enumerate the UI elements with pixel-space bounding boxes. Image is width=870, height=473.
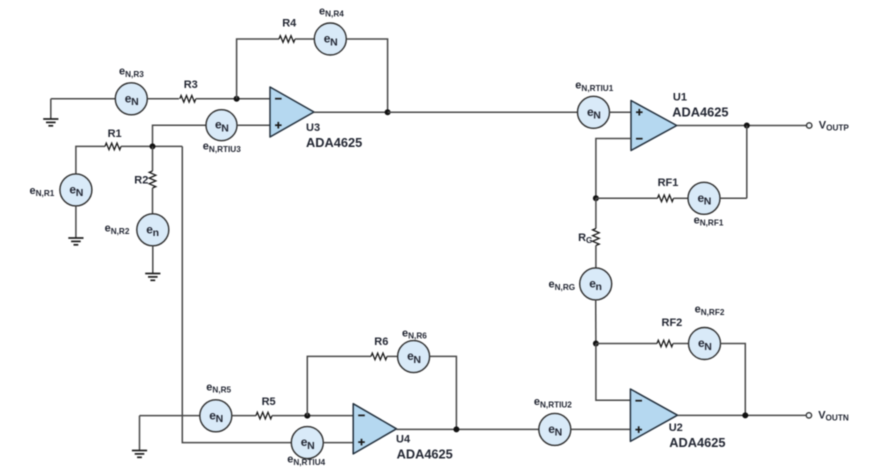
svg-text:N: N bbox=[307, 440, 315, 452]
wire ground1 stem bbox=[50, 99, 52, 119]
resistor R3 bbox=[180, 96, 196, 103]
noise source e_N,RF1 bbox=[688, 182, 720, 214]
svg-text:N: N bbox=[131, 96, 139, 108]
wire e_N,R5 to R5 bbox=[232, 415, 256, 417]
terminal V_OUTP terminal bbox=[807, 123, 812, 128]
wire U1 output to V_OUTP bbox=[677, 125, 807, 127]
svg-text:R2: R2 bbox=[134, 175, 148, 187]
wire U2 output to V_OUTN bbox=[678, 414, 806, 416]
wire e_N,R4 down to node B bbox=[346, 39, 387, 112]
svg-text:N: N bbox=[555, 427, 563, 439]
wire R4 to e_N,R4 bbox=[295, 38, 314, 40]
svg-text:U3: U3 bbox=[306, 122, 320, 134]
noise source e_N,RG bbox=[580, 268, 612, 300]
node F (U2 output node) bbox=[742, 412, 748, 418]
noise source e_N,RTIU4 bbox=[291, 427, 323, 459]
noise source e_N,R5 bbox=[200, 400, 232, 432]
noise source e_N,RF2 bbox=[689, 328, 721, 360]
wire e_N,RTIU1 to U1 plus bbox=[610, 111, 632, 113]
svg-text:ADA4625: ADA4625 bbox=[306, 135, 362, 150]
wire node C to R2 bbox=[152, 146, 154, 171]
ground GND4 bbox=[132, 451, 147, 458]
wire ground1 to e_N,R3 bbox=[51, 98, 116, 100]
svg-text:N: N bbox=[704, 341, 712, 353]
noise source e_N,R3 bbox=[115, 83, 147, 115]
wire R5 to U4 minus bbox=[272, 415, 353, 417]
ground GND3 bbox=[145, 274, 160, 281]
op-amp U3 bbox=[270, 87, 314, 137]
wire RG to e_N,RG bbox=[595, 246, 597, 268]
node E (U4 output node) bbox=[453, 426, 459, 432]
resistor RF1 bbox=[658, 195, 674, 202]
terminal V_OUTN terminal bbox=[806, 413, 811, 418]
wire node G to RF1 bbox=[746, 126, 748, 199]
wire RF1 to e_N,RF1 bbox=[674, 197, 689, 199]
svg-text:R4: R4 bbox=[282, 17, 297, 29]
noise source e_N,R6 bbox=[398, 341, 430, 373]
noise source e_N,R2 bbox=[137, 214, 169, 246]
resistor R6 bbox=[371, 353, 387, 360]
noise source e_N,R4 bbox=[314, 23, 346, 55]
node H (RF1/RG node) bbox=[593, 195, 599, 201]
svg-text:R3: R3 bbox=[184, 79, 198, 91]
wire U3 output to node B bbox=[314, 111, 388, 113]
wire R3 to node A bbox=[196, 98, 270, 100]
svg-text:U1: U1 bbox=[673, 92, 687, 104]
svg-text:N: N bbox=[593, 110, 601, 122]
wire ground4 to e_N,R5 bbox=[140, 415, 200, 417]
wire node A up to R4 rail bbox=[237, 39, 279, 99]
ground GND1 bbox=[43, 119, 58, 126]
wire e_N,RTIU4 to U4 plus bbox=[323, 442, 353, 444]
op-amp U4 bbox=[353, 404, 396, 454]
resistor R_G bbox=[593, 229, 600, 246]
wire node C up to e_N,RTIU3 bbox=[153, 125, 207, 146]
wire U4 output to e_N,RTIU2 bbox=[397, 428, 539, 430]
wire R1 to node C bbox=[121, 145, 182, 147]
wire e_N,R1 to ground2 bbox=[75, 206, 77, 238]
wire e_N,RTIU3 to U3 plus bbox=[237, 124, 270, 126]
wire e_N,R3 to R3 bbox=[147, 98, 179, 100]
svg-text:ADA4625: ADA4625 bbox=[672, 104, 728, 119]
noise source e_N,RTIU1 bbox=[578, 96, 610, 128]
svg-text:N: N bbox=[330, 36, 338, 48]
svg-text:N: N bbox=[216, 413, 224, 425]
svg-text:R5: R5 bbox=[262, 396, 276, 408]
wire e_N,R1 up to R1 bbox=[76, 146, 105, 190]
resistor RF2 bbox=[657, 340, 673, 347]
wire node I to RF2 bbox=[596, 343, 657, 345]
resistor R2 bbox=[149, 171, 156, 188]
wire RF2 to e_N,RF2 bbox=[673, 343, 689, 345]
wire node B to e_N,RTIU1 bbox=[388, 111, 578, 113]
svg-text:RF1: RF1 bbox=[658, 177, 679, 189]
wire ground4 stem bbox=[139, 416, 141, 451]
resistor R4 bbox=[279, 36, 295, 43]
node A (U3 inverting input node) bbox=[234, 96, 240, 102]
wire node I to U2 minus bbox=[596, 344, 631, 401]
wire e_N,RTIU2 to U2 plus bbox=[571, 428, 631, 430]
wire e_N,R2 to ground3 bbox=[152, 246, 154, 274]
node B (U3 output node) bbox=[385, 109, 391, 115]
svg-text:n: n bbox=[596, 281, 602, 293]
wire R2 to e_N,R2 bbox=[152, 188, 154, 214]
wire e_N,R6 down to node E bbox=[430, 356, 457, 429]
resistor R5 bbox=[256, 412, 272, 419]
node C (R1/R2 node) bbox=[150, 143, 156, 149]
svg-text:ADA4625: ADA4625 bbox=[669, 435, 725, 450]
svg-text:U2: U2 bbox=[669, 422, 683, 434]
resistor R1 bbox=[105, 143, 121, 150]
svg-text:N: N bbox=[76, 187, 84, 199]
node G (U1 output node) bbox=[744, 123, 750, 129]
op-amp U1 bbox=[631, 101, 677, 151]
noise source e_N,R1 bbox=[60, 174, 92, 206]
wire e_N,RG to node I bbox=[595, 300, 597, 344]
wire node H to RG bbox=[595, 198, 597, 228]
node I (RF2/RG node) bbox=[593, 341, 599, 347]
wire e_N,RF1 to node G column bbox=[720, 197, 747, 199]
svg-text:R6: R6 bbox=[374, 336, 388, 348]
svg-text:RF2: RF2 bbox=[662, 317, 683, 329]
wire node D up to R6 rail bbox=[307, 356, 371, 415]
svg-text:N: N bbox=[221, 123, 229, 135]
wire U1 minus to node H bbox=[596, 139, 631, 199]
wire R6 to e_N,R6 bbox=[387, 355, 398, 357]
svg-text:n: n bbox=[153, 227, 159, 239]
svg-text:N: N bbox=[704, 196, 712, 208]
wire node H to RF1 bbox=[596, 197, 658, 199]
svg-text:U4: U4 bbox=[396, 434, 411, 446]
noise source e_N,RTIU2 bbox=[539, 413, 571, 445]
op-amp U2 bbox=[630, 389, 677, 441]
svg-text:N: N bbox=[413, 354, 421, 366]
wire e_N,RF2 to node F bbox=[721, 344, 746, 416]
wire node C riser to e_N,RTIU4 bbox=[182, 146, 291, 442]
ground GND2 bbox=[68, 238, 83, 245]
node D (U4 inverting input node) bbox=[304, 413, 310, 419]
svg-text:ADA4625: ADA4625 bbox=[397, 446, 453, 461]
svg-text:R1: R1 bbox=[108, 128, 122, 140]
noise source e_N,RTIU3 bbox=[206, 110, 237, 141]
